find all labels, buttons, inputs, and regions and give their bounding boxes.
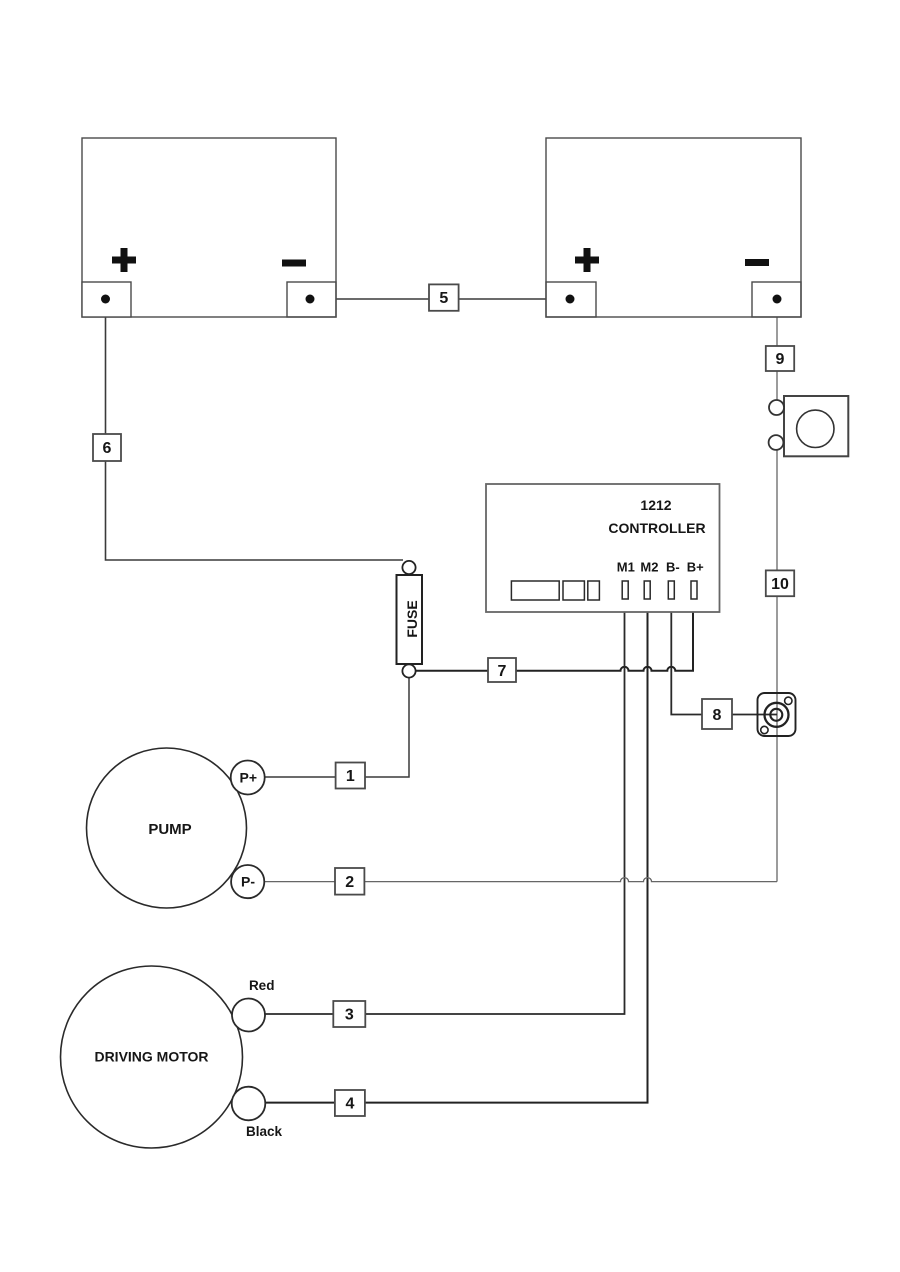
svg-text:P+: P+: [240, 770, 258, 786]
controller connector block small: [588, 581, 600, 600]
battery B2 body: [546, 138, 801, 317]
keyswitch barrel circle: [797, 410, 834, 447]
connector J1 flange plate: [758, 693, 796, 736]
wire label box 9: [766, 346, 794, 371]
svg-text:M2: M2: [640, 560, 658, 575]
svg-text:FUSE: FUSE: [404, 600, 420, 637]
keyswitch terminal top: [769, 400, 784, 415]
wire M1 pin down to wire3: [265, 599, 625, 1014]
wire 5 battery1 neg to battery2 pos: [310, 298, 570, 300]
svg-text:7: 7: [498, 663, 507, 680]
controller connector block large: [511, 581, 559, 600]
battery B1 body: [82, 138, 336, 317]
battery B2 plus symbol: [575, 248, 599, 272]
controller pin M1: [622, 581, 628, 599]
svg-text:5: 5: [439, 290, 448, 307]
svg-text:B-: B-: [666, 560, 680, 575]
fuse bottom terminal circle: [402, 664, 415, 677]
svg-text:1212: 1212: [640, 497, 671, 513]
svg-text:P-: P-: [241, 874, 255, 890]
wire 10 keyswitch down through connector to wire2 row: [776, 450, 778, 882]
svg-text:DRIVING MOTOR: DRIVING MOTOR: [94, 1049, 208, 1065]
svg-text:8: 8: [713, 707, 722, 724]
battery B2 pos terminal box: [546, 282, 596, 317]
svg-text:4: 4: [345, 1096, 354, 1113]
svg-text:10: 10: [771, 576, 789, 593]
wire 2 P- to keyswitch line with hops: [264, 878, 777, 882]
controller pin B-: [668, 581, 674, 599]
wire label box 2: [335, 868, 364, 895]
fuse top terminal circle: [402, 561, 415, 574]
battery B1 neg terminal box: [287, 282, 336, 317]
svg-text:3: 3: [345, 1007, 354, 1024]
wire label box 5: [429, 284, 459, 310]
wire label box 10: [766, 570, 794, 596]
battery B1 pos terminal box: [82, 282, 131, 317]
wire label box 8: [702, 699, 732, 729]
battery B2 pos dot: [566, 295, 575, 304]
battery B1 neg dot: [306, 295, 315, 304]
controller U1 box: [486, 484, 720, 612]
wire M2 pin down to wire4: [265, 599, 648, 1103]
battery B1 pos dot: [101, 295, 110, 304]
driving motor M1 body circle: [61, 966, 243, 1148]
controller pin M2: [644, 581, 650, 599]
wire 6 battery1 pos down to fuse top: [106, 299, 404, 560]
svg-text:1: 1: [346, 768, 355, 785]
connector J1 outer ring: [765, 703, 789, 727]
connector J1 center socket: [770, 709, 782, 721]
wire label box 1: [336, 763, 365, 789]
svg-text:Red: Red: [249, 978, 275, 993]
svg-text:B+: B+: [687, 560, 704, 575]
keyswitch S1 body: [784, 396, 848, 456]
connector J1 bolt hole bottom left: [761, 726, 768, 733]
svg-text:9: 9: [776, 351, 785, 368]
svg-text:CONTROLLER: CONTROLLER: [608, 520, 705, 536]
wire 8 B- pin to connector: [671, 599, 777, 715]
motor terminal Black circle: [232, 1087, 266, 1121]
wire 7 fuse bottom to B+ pin with hops: [409, 599, 693, 671]
wire 1 P+ to fuse bottom: [264, 671, 409, 777]
wire label box 7: [488, 658, 516, 682]
svg-text:PUMP: PUMP: [148, 821, 191, 838]
wire label box 3: [333, 1001, 365, 1027]
battery B1 plus symbol: [112, 248, 136, 272]
controller pin B+: [691, 581, 697, 599]
wire label box 4: [335, 1090, 365, 1116]
battery B2 neg dot: [773, 295, 782, 304]
connector J1 bolt hole top right: [785, 697, 792, 704]
pump terminal P-: [231, 865, 264, 898]
wire 9 battery2 neg down to keyswitch: [776, 299, 778, 400]
fuse F1 body: [397, 575, 423, 664]
battery B1 minus symbol: [282, 260, 306, 267]
battery B2 neg terminal box: [752, 282, 801, 317]
svg-text:2: 2: [345, 874, 354, 891]
motor terminal Red circle: [232, 999, 265, 1032]
controller connector block medium: [563, 581, 584, 600]
svg-text:6: 6: [103, 440, 112, 457]
pump terminal P+: [231, 761, 265, 795]
keyswitch terminal bottom: [769, 435, 784, 450]
wire label box 6: [93, 434, 121, 461]
svg-text:M1: M1: [617, 560, 635, 575]
battery B2 minus symbol: [745, 259, 769, 266]
svg-text:Black: Black: [246, 1124, 283, 1139]
pump M2 body circle: [87, 748, 247, 908]
